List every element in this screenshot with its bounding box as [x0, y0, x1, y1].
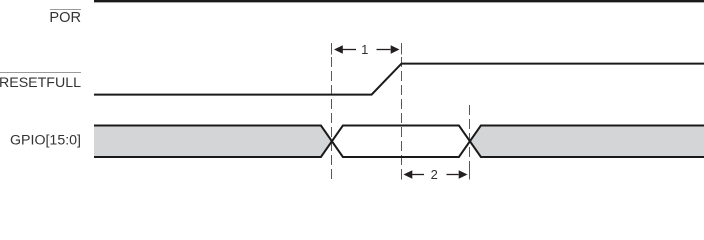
svg-text:GPIO[15:0]: GPIO[15:0] — [10, 132, 81, 148]
svg-text:1: 1 — [361, 42, 368, 57]
svg-text:RESETFULL: RESETFULL — [0, 75, 81, 91]
svg-text:2: 2 — [431, 167, 438, 182]
svg-text:POR: POR — [49, 10, 81, 26]
